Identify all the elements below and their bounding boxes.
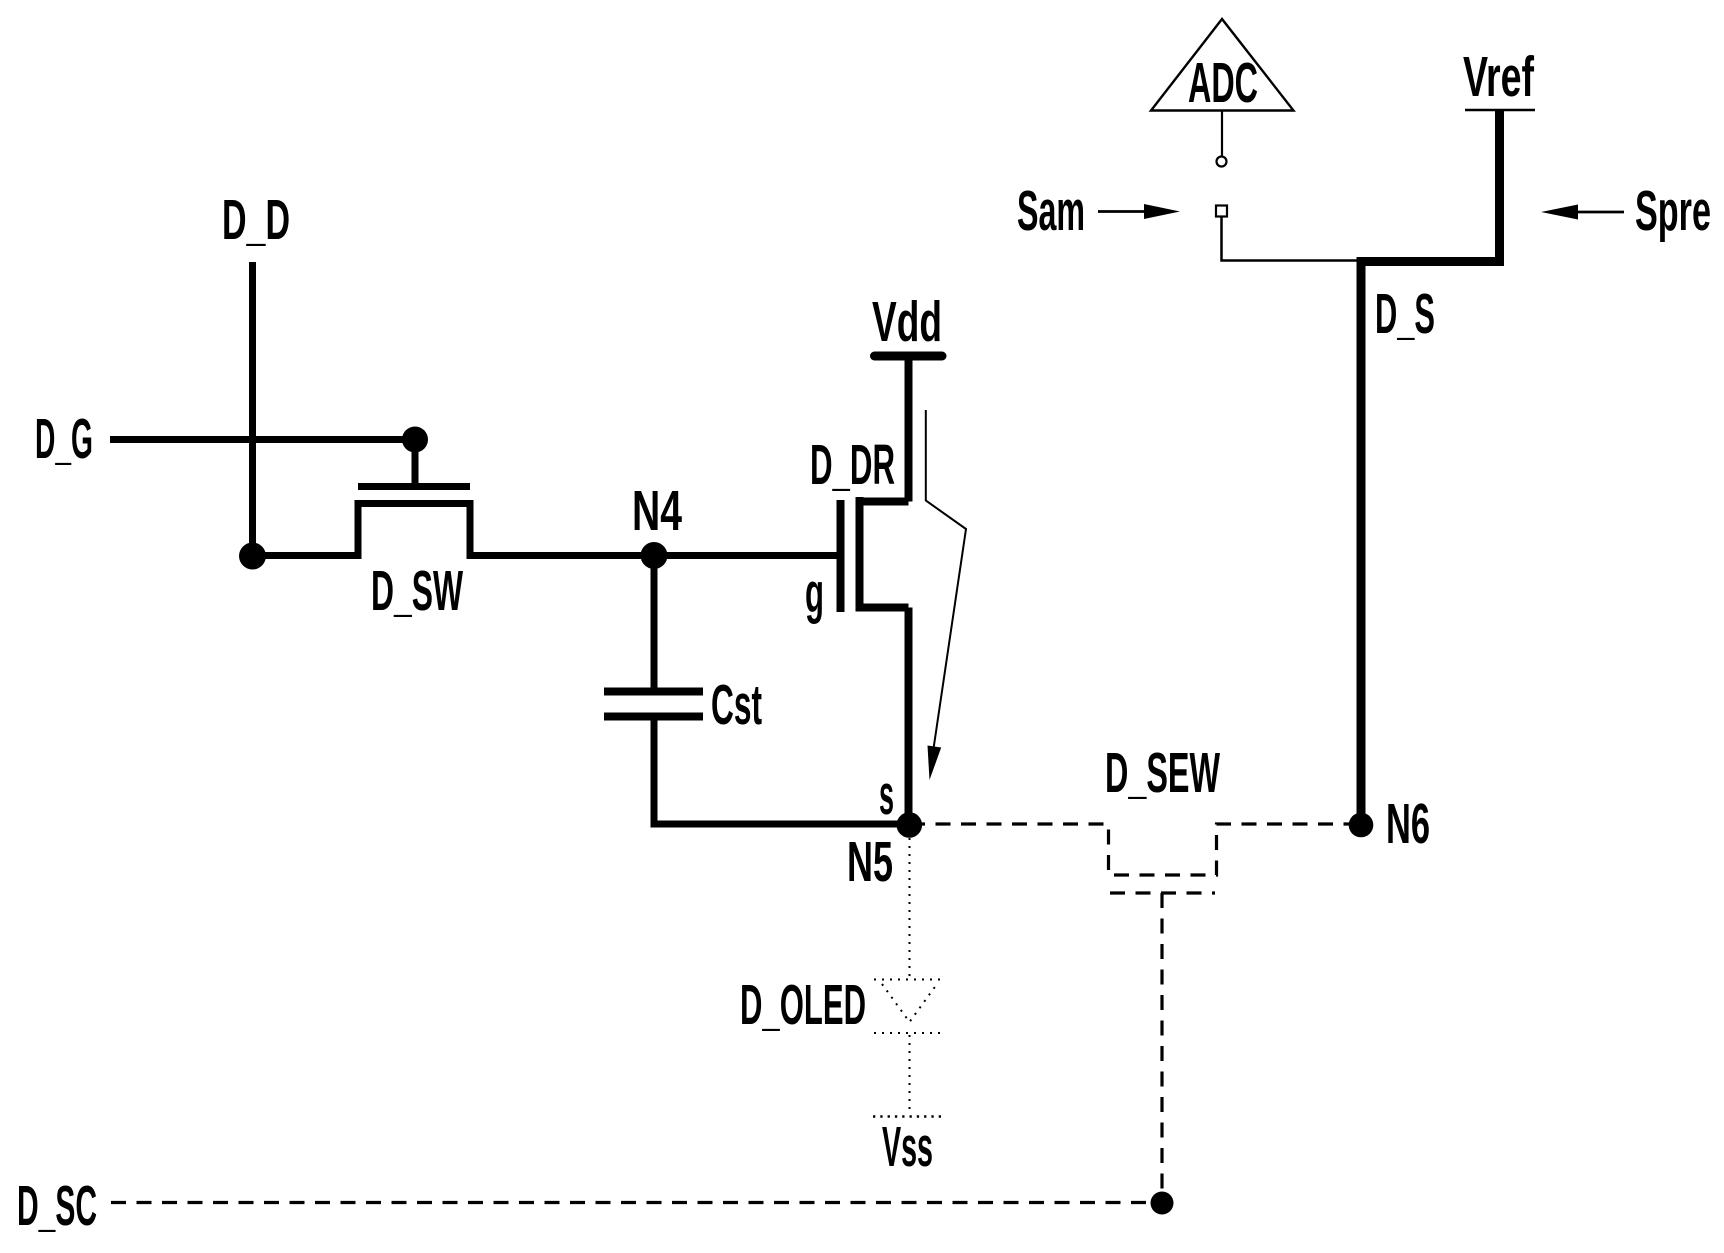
wire D_D vertical	[249, 262, 256, 556]
wire D_G horizontal	[110, 436, 415, 443]
Sam arrow shaft	[1098, 210, 1148, 213]
Spre arrowhead	[1541, 205, 1578, 220]
label Sam	[1017, 179, 1085, 243]
svg-text:D_G: D_G	[35, 407, 93, 471]
node label N4	[632, 479, 682, 543]
svg-text:N4: N4	[632, 479, 682, 543]
node label N6	[1386, 792, 1430, 856]
node label N5	[847, 830, 893, 894]
ADC label	[1188, 51, 1258, 115]
junction dot D_D to source rail	[239, 543, 266, 570]
power label Vref	[1463, 45, 1535, 109]
diode D_OLED anode bar dotted	[874, 979, 941, 981]
svg-text:Vss: Vss	[882, 1115, 933, 1179]
transistor label D_SEW	[1105, 741, 1220, 805]
node label D_D	[222, 188, 290, 252]
transistor D_SW gate bar	[358, 483, 470, 490]
transistor D_SEW gate bar dashed	[1110, 891, 1215, 894]
diode label D_OLED	[740, 973, 866, 1037]
wire Vdd to D_DR drain	[905, 358, 913, 502]
svg-text:Vdd: Vdd	[872, 290, 942, 354]
Sam arrowhead	[1144, 204, 1180, 219]
power label Vss	[882, 1115, 933, 1179]
wire label D_S	[1375, 282, 1435, 346]
capacitor Cst bottom plate	[604, 713, 703, 721]
wire D_OLED to Vss dotted	[909, 1035, 911, 1112]
wire D_SW gate lead	[412, 440, 419, 484]
leader line from D_DR to source pin	[926, 410, 966, 752]
switch contact circle	[1217, 157, 1227, 167]
label D_SC	[17, 1174, 97, 1238]
wire Cst bottom to N5	[654, 720, 910, 824]
wire switch to D_S corner	[1222, 217, 1359, 261]
svg-text:D_SEW: D_SEW	[1105, 741, 1220, 805]
power Vdd terminal bar	[875, 352, 943, 361]
svg-text:s: s	[879, 763, 894, 827]
svg-text:N5: N5	[847, 830, 893, 894]
svg-text:D_OLED: D_OLED	[740, 973, 866, 1037]
svg-text:ADC: ADC	[1188, 51, 1258, 115]
svg-text:D_DR: D_DR	[810, 433, 895, 497]
power label Vdd	[872, 290, 942, 354]
wire D_DR source to node N5	[905, 608, 913, 827]
node N5 junction dot	[897, 812, 923, 838]
transistor label D_SW	[371, 559, 463, 623]
transistor D_DR gate bar	[837, 500, 845, 612]
ADC triangle symbol	[1151, 19, 1294, 111]
svg-text:g: g	[805, 561, 824, 625]
wire ADC lead down	[1221, 111, 1223, 157]
node N6 junction dot	[1349, 813, 1374, 838]
wire N5 to D_OLED dotted	[909, 838, 911, 979]
node N4 junction dot	[641, 542, 668, 569]
Spre arrow shaft	[1577, 211, 1624, 214]
transistor D_SW channel and source/drain wires	[253, 504, 655, 556]
wire N4 down to capacitor Cst	[651, 556, 658, 688]
capacitor label Cst	[711, 673, 762, 737]
power Vss terminal bar dotted	[873, 1115, 941, 1118]
transistor D_SEW dashed channel and source/drain wires	[910, 824, 1361, 875]
transistor D_DR source arm	[856, 604, 909, 612]
gate pin label g	[805, 561, 824, 625]
source pin label s	[879, 763, 894, 827]
svg-text:D_SC: D_SC	[17, 1174, 97, 1238]
wire D_SC dashed horizontal	[111, 1201, 1162, 1204]
transistor label D_DR	[810, 433, 895, 497]
diode D_OLED triangle dotted	[882, 984, 937, 1022]
svg-text:Cst: Cst	[711, 673, 762, 737]
Vref terminal bar	[1465, 109, 1535, 112]
svg-text:D_D: D_D	[222, 188, 290, 252]
diode D_OLED cathode bar dotted	[874, 1032, 941, 1034]
svg-text:D_SW: D_SW	[371, 559, 463, 623]
svg-text:Spre: Spre	[1635, 179, 1711, 243]
wire D_SEW gate to D_SC dashed	[1160, 893, 1163, 1203]
node label D_G	[35, 407, 93, 471]
wire N4 to D_DR gate	[654, 552, 837, 559]
svg-text:D_S: D_S	[1375, 282, 1435, 346]
thick wire Vref down and across and down to N6	[1361, 110, 1500, 825]
label Spre	[1635, 179, 1711, 243]
junction dot on D_G at D_SW gate	[402, 427, 428, 453]
svg-text:N6: N6	[1386, 792, 1430, 856]
capacitor Cst top plate	[604, 688, 703, 696]
switch contact square	[1216, 206, 1227, 217]
svg-text:Vref: Vref	[1463, 45, 1535, 109]
transistor D_DR drain arm	[856, 498, 909, 506]
junction dot D_SC gate connection	[1151, 1192, 1174, 1215]
transistor D_DR channel bar	[856, 497, 864, 611]
svg-text:Sam: Sam	[1017, 179, 1085, 243]
leader arrowhead at s	[928, 746, 942, 781]
